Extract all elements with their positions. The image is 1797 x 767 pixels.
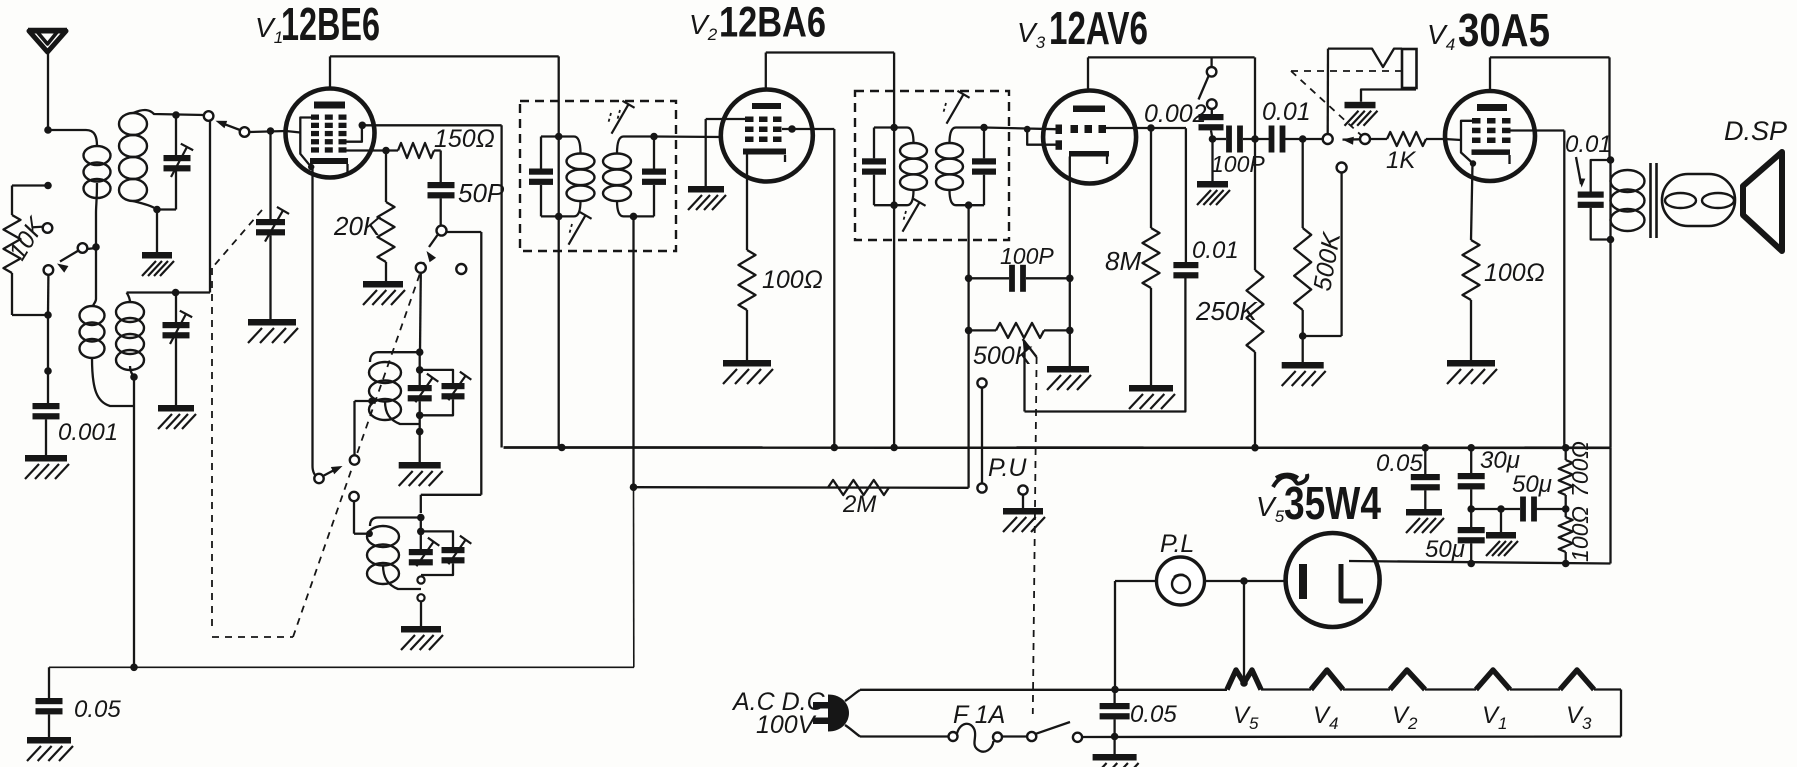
IFT2 dashed box — [855, 91, 1009, 240]
wire tone switch stub — [1210, 57, 1212, 67]
capacitor C2 tuning band2 (variable) — [163, 322, 190, 328]
ground 8M — [1129, 385, 1173, 392]
heater bump V1 — [1476, 670, 1510, 690]
svg-text:700Ω: 700Ω — [1567, 441, 1593, 497]
tube V5 internals — [1299, 564, 1307, 599]
capacitor 30u — [1458, 473, 1485, 479]
wire P.L left — [1115, 580, 1157, 582]
capacitor 0.01 tone — [1578, 192, 1604, 198]
wire AVC faint down — [633, 487, 635, 667]
svg-text:P.L: P.L — [1160, 530, 1194, 558]
wire IFT2 sec top rail — [950, 128, 957, 144]
wire to 1K — [1370, 138, 1387, 140]
svg-text:0.01: 0.01 — [1192, 237, 1239, 264]
wire AVC return line — [49, 666, 634, 668]
heater line right — [1594, 688, 1621, 690]
plug body — [828, 695, 849, 732]
ground V2 cathode — [723, 360, 771, 367]
wire V4 plate top run — [1490, 56, 1610, 58]
ground mains — [1093, 754, 1137, 761]
capacitor 50u lower — [1458, 527, 1485, 533]
wire prim2 top curve — [93, 299, 96, 306]
coil L3 band2 primary — [80, 306, 105, 325]
capacitor 0.01 shunt — [1173, 262, 1198, 268]
wire filter mid line — [1471, 508, 1520, 510]
switch mains arm — [1036, 722, 1070, 734]
speaker horn — [1743, 152, 1782, 251]
wire osc2 trimmer bracket — [421, 531, 453, 547]
switch osc2 contact upper — [417, 576, 424, 583]
switch S1a arm — [60, 251, 79, 262]
resistor 1K — [1387, 132, 1426, 146]
wire V1 screen — [359, 122, 367, 130]
wire prim2 bottom — [92, 358, 134, 406]
wire secondary top — [133, 110, 204, 115]
wire IFT2 prim cap bottom — [873, 175, 875, 206]
svg-text:0.01: 0.01 — [1262, 98, 1311, 126]
wire V4 screen — [1511, 129, 1565, 131]
ground 20K — [363, 281, 403, 288]
capacitor 0.01 coupling — [1269, 126, 1275, 153]
capacitor osc1 trimmer (variable) — [442, 383, 465, 389]
svg-text:100Ω: 100Ω — [1484, 259, 1545, 287]
wire IFT1 feed — [558, 56, 560, 447]
pot wiper arrow — [1023, 339, 1032, 352]
resistor 20K lead — [385, 151, 387, 203]
heater line seg5 — [1510, 688, 1560, 690]
resistor 10K — [4, 215, 21, 273]
tube V3 12AV6 envelope — [1043, 91, 1136, 184]
resistor 250K — [1247, 270, 1264, 352]
svg-text:0.001: 0.001 — [58, 419, 118, 446]
capacitor IFT1 primary — [529, 169, 553, 175]
resistor 10K bracket bottom — [11, 273, 13, 315]
svg-text:0.01: 0.01 — [1565, 131, 1612, 158]
potentiometer right wire — [1044, 329, 1070, 331]
wire P.L right — [1205, 580, 1287, 582]
wire arm to coil line — [87, 248, 96, 249]
svg-text:30μ: 30μ — [1480, 447, 1520, 474]
wire cap C1 top lead — [175, 115, 177, 155]
wire osc feed right — [447, 231, 482, 233]
resistor 2M — [828, 480, 889, 495]
wire osc1 trimmer bracket — [420, 370, 453, 383]
wire 150ohm to 50P — [434, 149, 441, 151]
node osc2 top — [417, 514, 425, 522]
speaker voice coil — [1662, 174, 1735, 226]
wire V2 screen down to B+ — [833, 129, 835, 448]
wire primary down-lead — [96, 183, 97, 299]
wire osc2 vertical — [420, 518, 422, 550]
wire IFT2 sec bottom down — [967, 205, 969, 488]
capacitor C1 tuning (variable) — [164, 155, 191, 161]
dashed band switch vertical — [211, 268, 213, 630]
ground 500K — [1282, 362, 1324, 369]
wire osc1 vertical — [419, 352, 421, 385]
wire 100ohm to ground — [746, 310, 748, 360]
wire OPT vertical — [1609, 160, 1611, 240]
wire V2 screen — [788, 125, 796, 133]
capacitor 0.05 line — [1424, 448, 1426, 474]
resistor 10K bracket top — [12, 184, 48, 186]
wire filter bottom — [1565, 552, 1567, 564]
svg-text:100V: 100V — [756, 711, 817, 739]
switch S1c contact bottom — [416, 263, 426, 273]
switch S2 contact band2 — [349, 492, 358, 501]
wire V4 plate to top — [1489, 57, 1491, 91]
switch jack arm — [1343, 137, 1354, 145]
ground osc1 — [399, 462, 441, 469]
trimmer mark IFT1 top — [612, 104, 629, 133]
wire IFT1 to V2 grid — [654, 135, 722, 138]
wire 50u to resistors — [1535, 508, 1566, 510]
wire V4 cathode down — [1471, 164, 1473, 241]
resistor 250K lead — [1254, 139, 1256, 270]
svg-text:0.05: 0.05 — [1130, 701, 1177, 728]
wire IFT1 sec bottom down — [632, 216, 634, 487]
wire P.U link — [981, 388, 983, 484]
capacitor 30u lead — [1470, 448, 1472, 473]
svg-text:1K: 1K — [1386, 147, 1416, 174]
wire V2 plate top run — [766, 51, 894, 53]
heater bump V5 — [1227, 670, 1261, 690]
capacitor 0.05 AVC bypass — [36, 698, 63, 704]
OPT core — [1649, 163, 1652, 238]
wire 50P to switch — [440, 198, 442, 225]
ground C2 — [158, 405, 194, 412]
wire V1 screen down to B+ — [500, 125, 502, 447]
coil IFT2 primary — [900, 143, 927, 159]
capacitor IFT2 secondary — [972, 158, 996, 164]
switch S1c contact top — [437, 226, 447, 236]
coil IFT2 secondary — [936, 143, 963, 159]
svg-text:0.002: 0.002 — [1144, 100, 1207, 128]
wire V1 plate to top — [329, 56, 331, 88]
resistor 8M — [1143, 228, 1160, 288]
bottom rail left — [860, 735, 952, 737]
trimmer mark IFT2 bottom — [903, 202, 920, 231]
wire 0.002 bottom lead — [1211, 130, 1213, 139]
wire osc2 tap link — [353, 501, 355, 534]
dashed band switch bottom — [212, 636, 293, 638]
capacitor osc2 trimmer (variable) — [442, 547, 465, 553]
wire IFT2 feed — [893, 53, 895, 448]
switch S1c floating contact — [456, 264, 466, 274]
wire V3 plate top run — [1088, 56, 1255, 58]
wire osc2 top rail — [378, 516, 421, 518]
wire antenna stem — [47, 52, 49, 130]
resistor 20K — [378, 202, 395, 262]
svg-text:8M: 8M — [1105, 246, 1141, 276]
wire sec2 bottom — [130, 366, 134, 377]
wire wiper down — [1023, 351, 1025, 412]
wire V1 grid5 out — [347, 149, 399, 151]
wire tuning gang lead — [269, 131, 271, 219]
wire jack contact down — [1340, 173, 1342, 337]
wire 100P right — [1026, 277, 1070, 279]
svg-text:20K: 20K — [333, 211, 382, 241]
heater line seg4 — [1425, 688, 1476, 690]
wire plug top lead — [845, 690, 860, 701]
wire heater tap — [1243, 581, 1245, 683]
ground V2 G3 — [688, 186, 724, 193]
bottom rail right — [1082, 735, 1621, 738]
capacitor IFT1 secondary — [642, 169, 666, 175]
lamp P.L — [1157, 557, 1205, 605]
capacitor 100P coupling — [1226, 126, 1232, 153]
coil L1 antenna primary — [84, 146, 111, 165]
trimmer mark IFT1 bottom — [569, 215, 586, 244]
potentiometer 500K volume left wire — [969, 329, 996, 331]
capacitor osc2 padder (variable) — [409, 549, 433, 555]
coil L5 oscillator — [369, 362, 401, 383]
capacitor 50u coupling — [1520, 497, 1526, 522]
wire V1 plate top run — [330, 55, 559, 57]
node antenna junction — [44, 126, 52, 134]
wire 20K to ground — [385, 262, 387, 281]
tube V1 12BE6 envelope — [286, 89, 375, 178]
wire main line down — [47, 275, 50, 315]
switch S1c arm — [429, 235, 438, 247]
wire osc1 below cap — [419, 401, 421, 431]
wire 500K to ground — [1302, 310, 1304, 362]
svg-text:12BA6: 12BA6 — [719, 0, 826, 47]
wire osc1 bottom curve — [385, 401, 420, 424]
wire IFT1 prim top rail — [541, 135, 574, 137]
plug prongs — [813, 702, 828, 709]
svg-text:100P: 100P — [1211, 151, 1265, 177]
svg-text:12BE6: 12BE6 — [281, 0, 380, 50]
wire 2M line — [634, 486, 969, 489]
tube V2 internals — [752, 103, 781, 109]
heater line seg3 — [1343, 688, 1390, 690]
wire OPT to B+ bus — [1609, 240, 1611, 448]
svg-text:D.SP: D.SP — [1724, 116, 1787, 146]
wire IFT2 prim top rail — [874, 126, 907, 128]
resistor 150ohm — [398, 143, 434, 158]
wire V3 diode out — [1147, 124, 1155, 132]
terminal P.U top — [977, 378, 986, 387]
tube V4 30A5 envelope — [1445, 91, 1535, 181]
wire arm to V1 grid — [249, 131, 286, 132]
ground 0.05 — [27, 737, 71, 744]
wire OPT left bracket — [1591, 160, 1611, 192]
svg-text:0.05: 0.05 — [74, 696, 121, 723]
wire cap C2 top lead — [175, 293, 177, 323]
svg-text:30A5: 30A5 — [1458, 4, 1550, 56]
dashed gang link osc cap — [212, 210, 262, 268]
switch mains left — [1027, 732, 1036, 741]
switch S1b contact — [204, 111, 214, 121]
svg-text:250K: 250K — [1195, 296, 1258, 326]
wire OPT feed down — [1608, 57, 1610, 160]
resistor 700ohm — [1559, 460, 1573, 495]
svg-text:P.U: P.U — [988, 454, 1027, 482]
wire IFT2 to V3 grid — [984, 128, 1056, 130]
wire secondary bottom — [133, 201, 157, 210]
wire 1K to V4 — [1426, 138, 1445, 140]
wire osc2 to ground — [420, 601, 422, 626]
resistor 500K grid lead — [1302, 139, 1304, 228]
capacitor 0.05 mains — [1100, 703, 1130, 709]
ground P.U — [1003, 508, 1043, 515]
tube V1 internals — [314, 102, 345, 109]
switch tone arm — [1199, 76, 1209, 99]
wire 0.002 top lead — [1211, 109, 1213, 114]
wire V3 plate to top — [1087, 57, 1089, 90]
wire IFT1 sec top rail — [617, 137, 624, 154]
svg-text:100Ω: 100Ω — [762, 266, 823, 294]
wire 8M to ground — [1150, 288, 1152, 385]
wire 0.05 top lead — [48, 667, 50, 698]
capacitor osc1 padder (variable) — [408, 385, 432, 391]
wire band2 link — [209, 121, 211, 293]
potentiometer 500K volume — [996, 323, 1044, 338]
dashed jack horizontal — [1291, 70, 1401, 72]
wire V3 cathode down — [1069, 157, 1071, 367]
terminal P.U ground side — [1018, 485, 1027, 494]
ground filter mid — [1486, 532, 1516, 539]
svg-text:3: 3 — [1582, 714, 1592, 733]
switch jack floating contact — [1337, 163, 1347, 173]
ground V4 cathode — [1447, 360, 1495, 367]
wire osc2 bottom curve — [383, 565, 421, 589]
wire to antenna coil — [48, 130, 97, 146]
svg-text:100Ω: 100Ω — [1567, 506, 1593, 562]
svg-text:5: 5 — [1249, 714, 1259, 733]
dashed jack diagonal — [1291, 71, 1362, 136]
diode plate V3 upper — [1056, 125, 1063, 135]
svg-text:0.05: 0.05 — [1376, 450, 1423, 477]
ground V3 cathode — [1047, 366, 1089, 373]
switch mains right — [1073, 733, 1082, 742]
switch osc2 contact lower — [417, 594, 424, 601]
wire IFT1 sec cap bottom — [653, 185, 655, 217]
tube V2 12BA6 envelope — [721, 90, 813, 182]
svg-text:1: 1 — [1498, 714, 1507, 733]
heater line left — [860, 689, 1227, 691]
resistor 100ohm V2 — [739, 250, 756, 310]
wire 0.01 shunt top — [1185, 128, 1187, 262]
coil L4 band2 secondary — [116, 302, 144, 322]
wire P.U ground stub — [1022, 495, 1024, 508]
wire V5 output — [1349, 561, 1611, 564]
switch S2 contact band1 — [350, 455, 359, 464]
wire mains ground stub — [1113, 737, 1115, 755]
svg-text:F 1A: F 1A — [953, 701, 1005, 729]
heater line seg2 — [1261, 688, 1311, 690]
coil IFT1 primary — [567, 154, 595, 170]
wire cap C2 bottom lead — [175, 338, 177, 405]
fuse F1A — [949, 732, 958, 741]
wire 250K to B+ — [1254, 352, 1256, 448]
wire V4 screen down to B+ — [1563, 131, 1565, 448]
ground jack — [1345, 102, 1376, 109]
coil L6 oscillator band2 — [367, 526, 399, 547]
terminal P.U bottom — [977, 483, 986, 492]
jack top line — [1328, 49, 1402, 67]
wire plug bottom lead — [845, 725, 860, 737]
switch tone contact upper — [1207, 67, 1217, 77]
tube V5 35W4 envelope — [1286, 533, 1380, 627]
ground 0.001 — [25, 455, 67, 462]
svg-text:4: 4 — [1329, 714, 1338, 733]
wire V2 cathode down — [746, 155, 748, 251]
jack sleeve — [1402, 49, 1417, 88]
wire V1 cathode down — [311, 169, 313, 466]
wire jack to switch — [1327, 49, 1330, 134]
ground 0.05 filter — [1406, 509, 1442, 516]
svg-text:2M: 2M — [842, 491, 876, 518]
dashed pot-switch link — [1033, 357, 1037, 714]
antenna — [29, 31, 66, 52]
printing smudge — [1273, 474, 1307, 487]
wire to 100P — [1213, 138, 1227, 140]
wire V3 plate down — [1254, 57, 1256, 139]
heater bump V4 — [1311, 670, 1343, 690]
wire V2 G3 ground — [706, 118, 745, 120]
resistor 100ohm filter — [1559, 517, 1573, 552]
capacitor 0.05 filter — [1411, 474, 1440, 480]
bottom rail seg2 — [1001, 735, 1027, 737]
switch S2 moving contact — [314, 474, 323, 483]
dashed band switch diagonal — [293, 262, 424, 637]
wire ground stub — [156, 210, 158, 253]
coil L2 antenna secondary — [119, 113, 147, 135]
wire osc1 tap link — [353, 401, 355, 455]
tube V3 internals — [1073, 106, 1105, 113]
B+ bus — [504, 446, 1611, 449]
capacitor 100P feedback — [1009, 265, 1015, 292]
wire band2 return down — [133, 377, 135, 667]
heater right corner — [1620, 690, 1622, 737]
heater bump V2 — [1390, 670, 1425, 690]
capacitor tuning gang (variable) — [256, 219, 285, 225]
svg-text:150Ω: 150Ω — [434, 125, 495, 153]
switch S1a contact B — [44, 265, 54, 275]
svg-text:100P: 100P — [1000, 243, 1054, 269]
coil IFT1 secondary — [603, 154, 631, 170]
svg-text:50μ: 50μ — [1425, 536, 1465, 563]
node OPT top — [1607, 156, 1615, 164]
wire tuning gang bottom — [269, 235, 271, 319]
svg-text:50μ: 50μ — [1512, 471, 1552, 498]
wire tone ground stub — [1211, 139, 1213, 181]
switch S2 arm — [323, 468, 338, 476]
trimmer mark IFT2 top — [947, 94, 964, 123]
wire IFT2 sec cap bottom — [983, 175, 985, 206]
switch S1b arm — [240, 127, 250, 137]
wire V2 plate to top — [765, 53, 767, 91]
wire osc1 to ground — [419, 432, 421, 462]
node grid tuning tap — [267, 127, 275, 135]
capacitor 100P feedback wire — [969, 277, 1009, 279]
resistor 500K grid — [1294, 228, 1311, 310]
node V2 screen at bus — [831, 444, 839, 452]
wire 0.05 bottom lead — [48, 714, 50, 737]
wire osc switch down — [419, 273, 422, 352]
wire cap C1 bottom — [175, 171, 177, 210]
wire sec2 top curve — [127, 293, 130, 303]
capacitor IFT2 primary — [862, 158, 886, 164]
capacitor 50P — [428, 182, 455, 188]
resistor 8M lead — [1150, 128, 1152, 228]
svg-text:12AV6: 12AV6 — [1049, 2, 1148, 54]
capacitor 0.001 — [33, 403, 60, 409]
svg-text:50P: 50P — [458, 178, 505, 208]
svg-text:2: 2 — [1407, 714, 1418, 733]
jack bottom line — [1361, 90, 1416, 102]
